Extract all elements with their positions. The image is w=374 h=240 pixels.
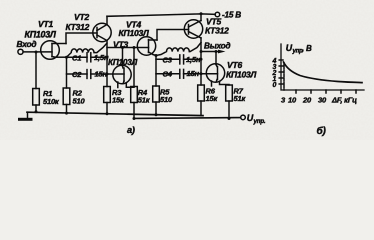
power terminal (215, 12, 220, 17)
y axis label Uupr V (286, 43, 312, 55)
transistor VT1 (41, 41, 66, 60)
ground rail (27, 112, 203, 115)
node R3 bottom (106, 112, 109, 115)
input terminal (18, 49, 23, 54)
svg-text:510к: 510к (43, 97, 60, 106)
x tick 40 (340, 90, 342, 93)
wire gate row VT4 (107, 47, 149, 49)
svg-text:20: 20 (302, 96, 312, 105)
wire R1 drop (35, 52, 37, 89)
svg-text:С4: С4 (163, 69, 173, 78)
svg-text:С2: С2 (72, 70, 82, 79)
node C1 right (106, 56, 109, 59)
capacitor C4 (156, 69, 218, 78)
wire VT6 bottom right (220, 82, 230, 86)
svg-text:510: 510 (73, 97, 86, 106)
transistor VT5 (184, 20, 202, 38)
svg-text:VT6: VT6 (227, 60, 242, 70)
inductor L1 (67, 43, 108, 57)
node R4 top (133, 46, 136, 49)
svg-text:VT1: VT1 (38, 19, 53, 29)
svg-text:С3: С3 (163, 55, 173, 64)
wire VT3 top to gate row (122, 48, 124, 67)
inductor L2 (156, 43, 201, 56)
svg-text:КП103Л: КП103Л (25, 30, 57, 40)
svg-text:упр.: упр. (253, 118, 266, 125)
svg-text:С1: С1 (72, 53, 81, 62)
x tick 30 (325, 90, 327, 93)
resistor R7 (226, 85, 233, 119)
resistor R5 (153, 86, 160, 115)
control line Uupr (134, 117, 241, 120)
svg-text:Вход: Вход (17, 39, 37, 49)
svg-text:30: 30 (318, 96, 327, 105)
control terminal (241, 115, 246, 120)
graph axes (281, 44, 364, 90)
y tick 3 (279, 65, 283, 67)
resistor R4 (131, 87, 138, 119)
svg-text:15к: 15к (206, 94, 219, 103)
wire input to VT1 gate (23, 51, 52, 53)
capacitor C2 (67, 70, 113, 79)
node R5 bottom (155, 113, 158, 116)
svg-text:15к: 15к (112, 96, 125, 105)
y tick 1 (279, 77, 283, 79)
svg-text:1,5н: 1,5н (186, 55, 201, 64)
svg-text:VT2: VT2 (74, 12, 89, 22)
transistor VT2 (93, 23, 111, 41)
svg-text:51к: 51к (138, 96, 151, 105)
y tick 4 (279, 59, 283, 61)
node C3 right (200, 58, 203, 61)
transistor VT4 (137, 37, 157, 55)
node R4 bottom (133, 117, 136, 120)
node gate VT1 / R1 (35, 51, 38, 54)
ground (20, 112, 32, 119)
capacitor C3 (156, 55, 201, 64)
arrowhead output (218, 50, 226, 54)
svg-text:10: 10 (288, 96, 297, 105)
node C2 rail crossing (106, 73, 109, 76)
svg-text:0: 0 (273, 82, 277, 89)
node R7 bottom (228, 117, 231, 120)
svg-text:КП103Л: КП103Л (119, 28, 150, 38)
resistor R6 (198, 85, 205, 116)
wire VT4 source (153, 55, 156, 56)
wire VT4 drain to VT5 base (157, 30, 189, 41)
transistor VT6 (206, 64, 224, 82)
x tick 50 (355, 90, 357, 93)
wire VT5 emitter rail (200, 38, 202, 85)
svg-text:ΔF, кГц: ΔF, кГц (331, 96, 357, 105)
node VT5 collector on rail (200, 12, 203, 15)
node output (200, 50, 203, 53)
node VT6 top (215, 50, 218, 53)
x tick 20 (310, 90, 312, 93)
svg-text:, В: , В (301, 44, 312, 53)
svg-text:Выход: Выход (204, 42, 230, 51)
dashed line at 3 kHz (283, 63, 285, 90)
node source VT1 (65, 56, 68, 59)
wire VT2 collector to rail (106, 16, 108, 24)
svg-text:51к: 51к (234, 94, 247, 103)
wire VT2 emitter rail (106, 41, 108, 87)
svg-text:КТ312: КТ312 (205, 26, 229, 36)
transistor VT3 (113, 65, 131, 83)
capacitor C1 (67, 53, 108, 62)
node source VT4 (155, 54, 158, 57)
curve Uupr vs dF (284, 62, 363, 83)
wire VT3 bottom left (117, 82, 119, 88)
wire output arrow (201, 51, 219, 53)
y tick 2 (279, 71, 283, 73)
node VT3 top (121, 46, 124, 49)
power rail -15V (107, 14, 215, 16)
x tick 10 (295, 90, 297, 93)
resistor R3 (104, 87, 111, 114)
wire VT5 collector to rail (200, 14, 202, 21)
wire R4 top drop (133, 48, 135, 87)
node R2 bottom (65, 112, 68, 115)
node R1 bottom (35, 110, 38, 113)
wire VT1 source row (55, 56, 66, 58)
wire VT1 drain to VT2 base (66, 33, 97, 44)
wire VT3 bottom right (126, 83, 134, 87)
svg-text:-15 В: -15 В (222, 11, 241, 20)
svg-text:15н: 15н (187, 69, 200, 78)
resistor R1 (33, 89, 40, 112)
y tick 0 (279, 83, 283, 85)
wire VT6 bottom left (211, 81, 213, 86)
svg-text:а): а) (127, 125, 135, 135)
svg-text:510: 510 (160, 95, 173, 104)
wire rail B down to R5 (155, 56, 157, 87)
node C4 rail crossing (200, 72, 203, 75)
wire rail A down to R2 (66, 57, 68, 88)
wire VT6 top (215, 52, 217, 65)
svg-text:б): б) (317, 125, 327, 137)
resistor R2 (63, 88, 70, 113)
svg-text:КТ312: КТ312 (66, 22, 90, 32)
svg-text:КП103Л: КП103Л (226, 70, 257, 80)
